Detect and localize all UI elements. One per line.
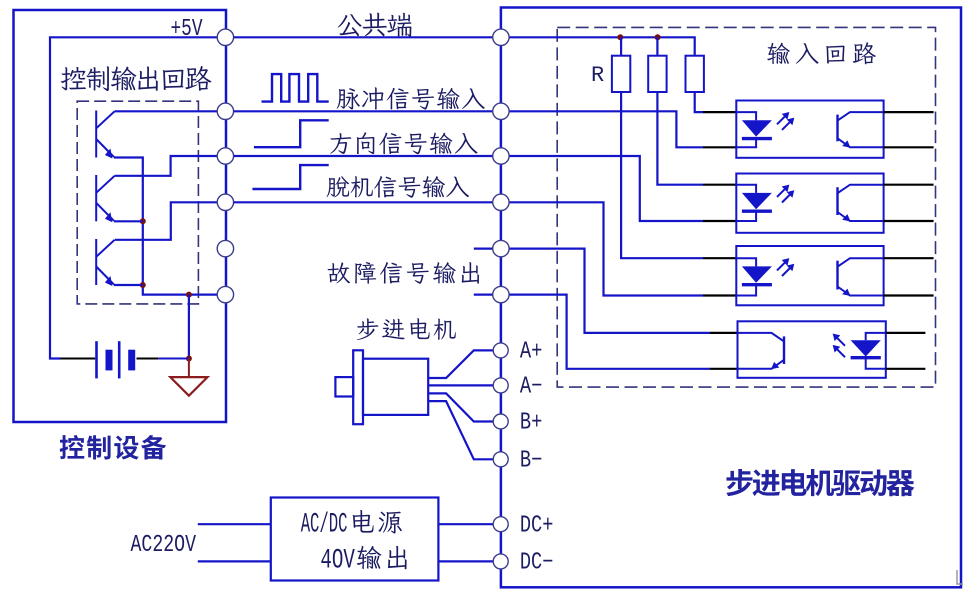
step waveform icon enable	[252, 165, 328, 189]
left terminal node 1	[217, 103, 233, 119]
wire opto3 cathode black stub	[703, 294, 736, 296]
battery B1	[61, 358, 96, 360]
wire direction staircase	[509, 156, 703, 221]
wire Q2 collector staircase to direction terminal	[115, 156, 218, 176]
terminal A-	[493, 378, 508, 393]
junction R2 top	[655, 34, 661, 40]
right terminal node 3	[493, 194, 509, 210]
optocoupler U1	[736, 101, 883, 158]
wire opto4 emitter black stub	[710, 368, 738, 370]
wire emitter bus	[114, 158, 217, 295]
label 控制输出回路	[61, 66, 212, 91]
label 步进电机	[357, 318, 456, 340]
wire fault stub upper	[474, 248, 493, 250]
stepper motor M	[363, 359, 428, 415]
dashed box 控制输出回路	[77, 101, 198, 304]
wire R1 to opto3 anode	[621, 92, 703, 258]
wire Q2 emitter	[114, 220, 143, 222]
wire opto2 anode black stub	[703, 184, 736, 186]
svg-text:DC+: DC+	[520, 512, 554, 539]
label 控制设备	[60, 435, 167, 460]
wire R3 to opto1 anode	[695, 92, 703, 112]
optocoupler U3	[736, 246, 883, 305]
step waveform icon direction	[254, 120, 329, 147]
left terminal node 3	[217, 194, 233, 210]
wire DC- output	[438, 560, 493, 562]
svg-text:A−: A−	[520, 374, 543, 401]
wire Q3 emitter	[114, 284, 143, 286]
wire pulse row	[234, 110, 493, 112]
svg-text:AC22OV: AC22OV	[131, 532, 197, 559]
wire opto4 collector black stub	[710, 332, 738, 334]
transistor Q1	[96, 111, 114, 158]
junction ground branch	[186, 292, 192, 298]
stepper driver box	[501, 8, 961, 588]
svg-text:4OV: 4OV	[320, 545, 355, 576]
wire ground branch	[188, 295, 190, 359]
junction R1 top	[617, 34, 623, 40]
transistor Q3	[96, 239, 114, 285]
terminal A+	[493, 343, 508, 358]
wire AC input upper	[198, 523, 271, 525]
svg-text:+5V: +5V	[171, 16, 203, 43]
svg-text:B+: B+	[520, 410, 543, 437]
wire opto3 anode black stub	[703, 257, 736, 259]
wire enable row	[234, 201, 493, 203]
AC/DC power supply box	[271, 498, 439, 581]
wire opto1 cathode black stub	[703, 146, 736, 148]
terminal B+	[493, 414, 508, 429]
ground	[188, 359, 190, 378]
junction Q3 emitter	[140, 282, 146, 288]
svg-text:R: R	[591, 63, 604, 88]
label 输入回路	[767, 42, 876, 64]
wire pulse staircase	[509, 111, 703, 147]
+5V rail wire	[50, 37, 225, 358]
left terminal node 4	[217, 240, 233, 256]
label 脉冲信号输入	[337, 87, 485, 109]
right terminal node 0	[493, 29, 509, 45]
wire Q1 collector to pulse terminal	[115, 110, 218, 112]
scrollbar artifact	[957, 570, 963, 584]
resistor R3	[686, 56, 704, 92]
svg-text:A+: A+	[520, 339, 543, 366]
right terminal node 1	[493, 103, 509, 119]
terminal DC+	[493, 517, 508, 532]
label 脱机信号输入	[327, 176, 469, 198]
wire common 公共端	[234, 36, 493, 38]
junction Q2 emitter	[140, 218, 146, 224]
control device box	[14, 10, 227, 422]
wire enable staircase	[509, 202, 703, 295]
wire opto1 anode black stub	[703, 111, 736, 113]
label 故障信号输出	[328, 262, 479, 284]
resistor R2	[648, 56, 666, 92]
label 步进电机驱动器	[726, 469, 914, 496]
left terminal node 2	[217, 148, 233, 164]
svg-text:B−: B−	[520, 448, 543, 475]
label 电源	[353, 510, 402, 534]
wire DC+ output	[438, 523, 493, 525]
label 公共端	[338, 13, 412, 37]
transistor Q2	[96, 175, 114, 221]
terminal DC-	[493, 554, 508, 569]
wire motor B+	[428, 393, 493, 421]
wire fault upper staircase	[509, 249, 710, 333]
left terminal node 0	[217, 29, 233, 45]
resistor R1	[612, 56, 630, 92]
wire fault lower staircase	[509, 295, 710, 369]
wire R1 top lead	[620, 37, 622, 55]
wire R2 to opto2 anode	[657, 92, 703, 185]
wire direction row	[234, 155, 493, 157]
svg-text:DC−: DC−	[520, 550, 554, 577]
wire R2 top lead	[656, 37, 658, 55]
wire motor A-	[428, 384, 493, 386]
wire common to resistors	[509, 37, 695, 55]
wire opto2 cathode black stub	[703, 220, 736, 222]
junction battery negative	[186, 356, 192, 362]
pulse waveform icon	[262, 74, 329, 102]
optocoupler U2	[736, 174, 883, 233]
label 方向信号输入	[330, 132, 477, 154]
wire motor B-	[428, 401, 493, 459]
svg-text:AC/DC: AC/DC	[301, 509, 348, 540]
wire Q3 collector staircase to free terminal	[115, 202, 217, 240]
label 输出(40V)	[357, 546, 407, 570]
left terminal node 5	[217, 286, 233, 302]
wire fault stub lower	[474, 294, 493, 296]
right terminal node 2	[493, 148, 509, 164]
optocoupler U4	[738, 321, 886, 378]
wire motor A+	[428, 350, 493, 378]
dashed box 输入回路	[557, 27, 935, 387]
terminal B-	[493, 452, 508, 467]
right terminal node 5	[493, 286, 509, 302]
wire AC input lower	[198, 560, 271, 562]
right terminal node 4	[493, 240, 509, 256]
